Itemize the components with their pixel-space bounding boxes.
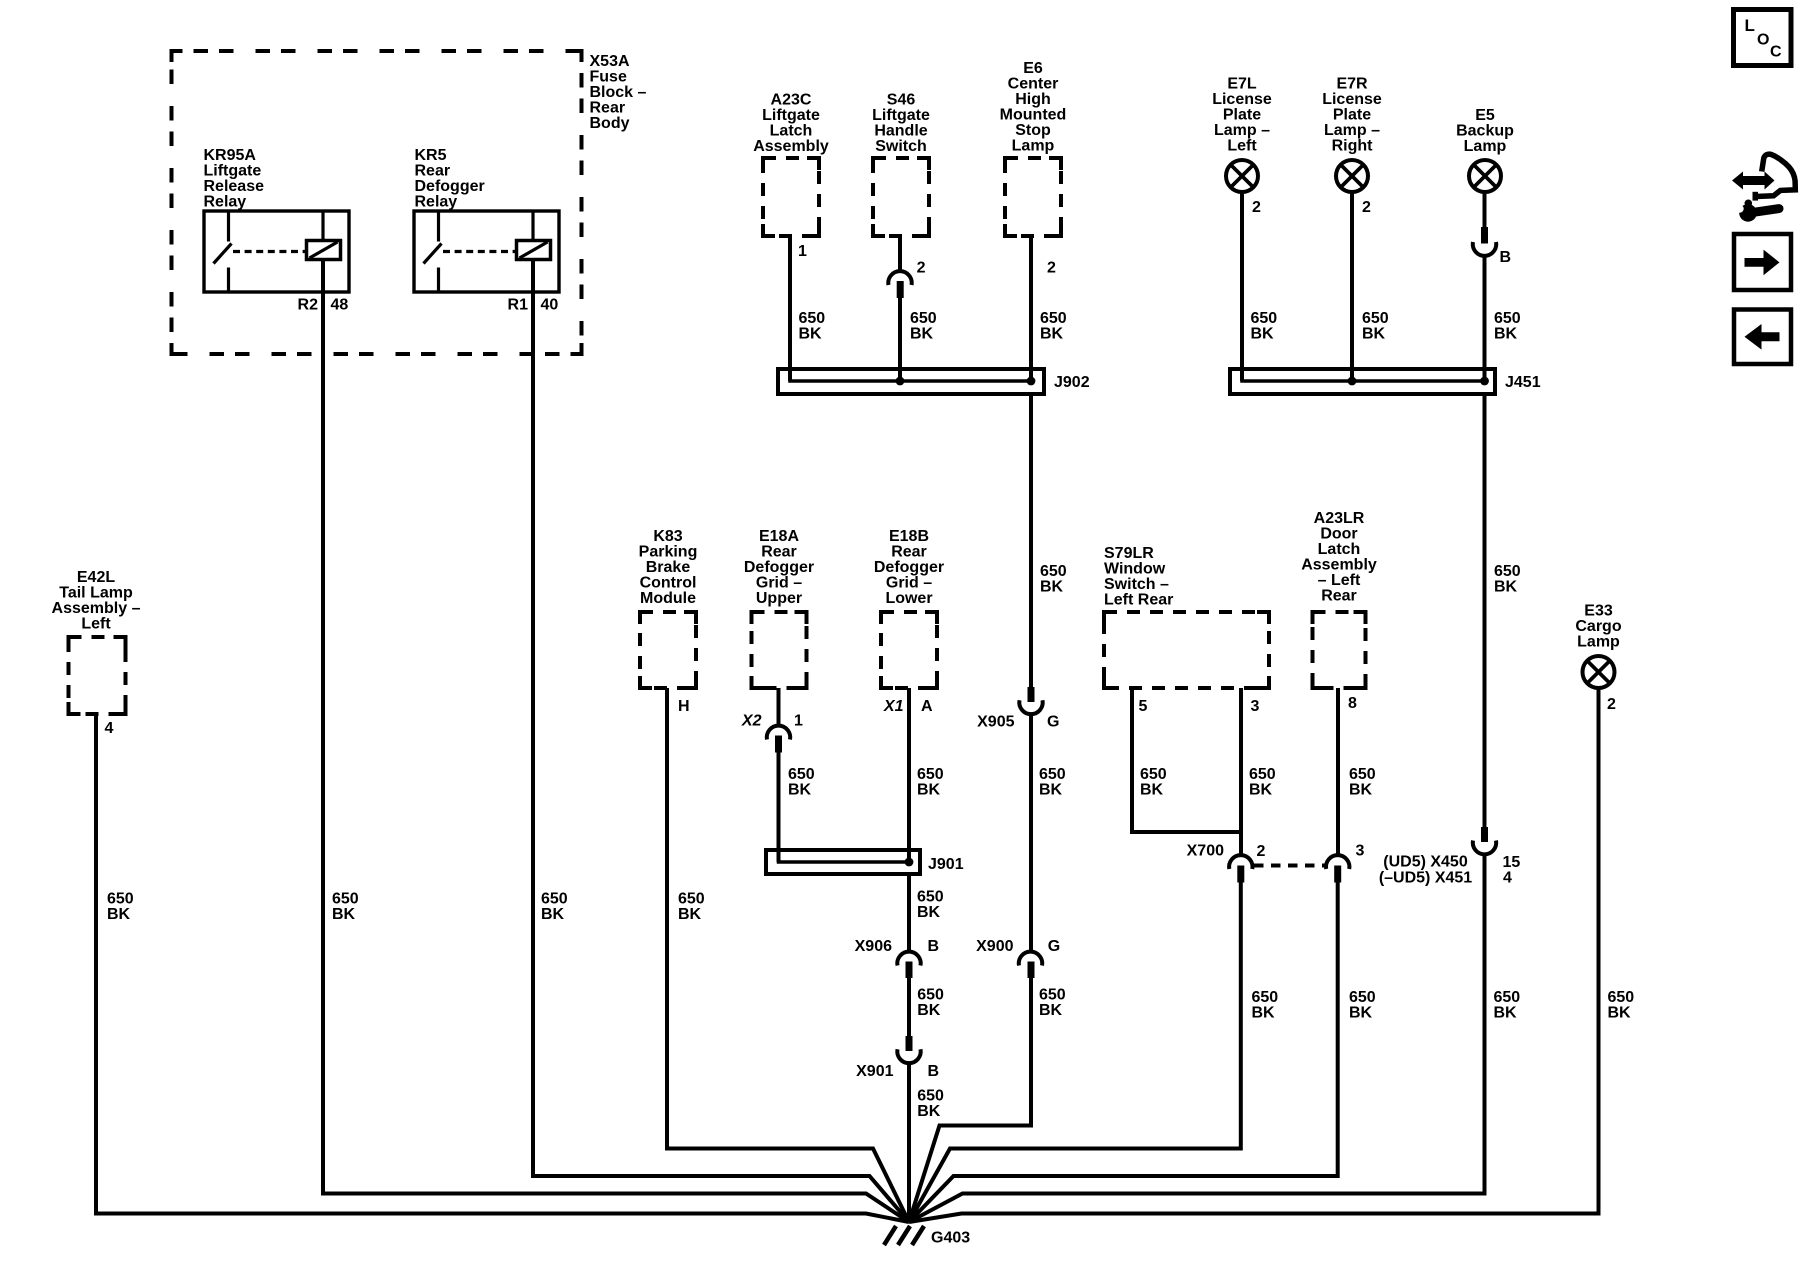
svg-text:3: 3 — [1356, 843, 1365, 860]
svg-text:650BK: 650BK — [1608, 989, 1635, 1022]
wire E5 upper segment — [1483, 192, 1487, 228]
svg-text:650BK: 650BK — [1249, 766, 1276, 799]
relay KR95A switch arm — [214, 244, 232, 264]
svg-text:40: 40 — [541, 297, 559, 314]
wire E5 to ground run — [909, 855, 1485, 1222]
relay KR5 actuation dashed link — [443, 250, 516, 253]
label E5 Backup Lamp — [1456, 107, 1514, 155]
svg-text:R1: R1 — [508, 297, 529, 314]
svg-text:650BK: 650BK — [1039, 766, 1066, 799]
wire K83 down — [665, 688, 669, 1151]
legend LOC box — [1734, 10, 1792, 66]
fuse block X53A dashed enclosure — [172, 51, 582, 354]
svg-text:X700: X700 — [1187, 843, 1224, 860]
junction dot E6/J902 — [1027, 377, 1036, 386]
svg-text:H: H — [678, 698, 690, 715]
wire E18A to J901 — [777, 752, 781, 863]
svg-text:650BK: 650BK — [910, 310, 937, 343]
wire E7L to J451 — [1240, 192, 1244, 381]
inline connector X900 — [1019, 952, 1042, 978]
inline connector at S46 pin 2 — [888, 271, 911, 298]
wire E18B to J901 — [907, 688, 911, 862]
relay KR95A coil top lead — [321, 213, 324, 241]
svg-text:J902: J902 — [1054, 374, 1090, 391]
splice J451 internal bus — [1242, 372, 1485, 381]
wire A23LR to ground run — [909, 881, 1338, 1222]
splice J902 internal bus — [790, 372, 1031, 381]
svg-text:1: 1 — [794, 713, 803, 730]
lamp E7R symbol — [1336, 160, 1368, 192]
label K83 Parking Brake Control Module — [639, 528, 698, 607]
svg-text:650BK: 650BK — [917, 766, 944, 799]
svg-text:J901: J901 — [928, 856, 964, 873]
module K83 dashed box — [640, 612, 696, 688]
wire KR95A bottom run to ground — [323, 1194, 909, 1223]
svg-text:650BK: 650BK — [541, 891, 568, 924]
svg-text:2: 2 — [1047, 260, 1056, 277]
svg-text:X901: X901 — [856, 1063, 893, 1080]
svg-text:650BK: 650BK — [917, 1088, 944, 1121]
wire E42L down — [94, 714, 98, 1216]
icon related-information (double arrow, outline arrow, wrench) — [1732, 154, 1795, 222]
svg-text:650BK: 650BK — [917, 889, 944, 922]
switch S79LR dashed box — [1104, 612, 1269, 688]
svg-text:1: 1 — [798, 243, 807, 260]
svg-text:650BK: 650BK — [1494, 989, 1521, 1022]
label S46 Liftgate Handle Switch — [872, 92, 930, 156]
icon double-headed arrow — [1732, 172, 1775, 190]
svg-text:C: C — [1770, 43, 1782, 60]
switch S46 dashed box — [873, 158, 929, 236]
svg-text:4: 4 — [1503, 870, 1512, 887]
connector A23C dashed box — [763, 158, 819, 236]
label A23C Liftgate Latch Assembly — [753, 92, 829, 156]
wire E5 to J451 — [1483, 256, 1487, 382]
wire E6 J902 to X905 — [1029, 394, 1033, 688]
splice pack J901 — [766, 850, 920, 874]
splice J901 internal bus — [779, 853, 910, 862]
svg-text:650BK: 650BK — [1349, 766, 1376, 799]
svg-text:R2: R2 — [298, 297, 319, 314]
relay KR5 switch top contact — [437, 213, 440, 242]
svg-text:650BK: 650BK — [1349, 989, 1376, 1022]
svg-text:X1: X1 — [883, 698, 904, 715]
relay KR95A coil — [307, 241, 341, 260]
inline connector X906 — [897, 952, 920, 978]
svg-text:(UD5) X450(–UD5) X451: (UD5) X450(–UD5) X451 — [1379, 854, 1472, 887]
wire KR5 down — [531, 292, 535, 1178]
wire S46 to J902 — [898, 297, 902, 381]
lamp E5 symbol — [1469, 160, 1501, 192]
relay KR5 — [414, 211, 559, 314]
wire A23LR down — [1336, 688, 1340, 854]
label E6 Center High Mounted Stop Lamp — [1000, 60, 1067, 155]
wire E42L bottom run to ground — [96, 1214, 909, 1223]
relay KR5 coil top lead — [531, 213, 534, 241]
svg-text:G: G — [1048, 938, 1060, 955]
lamp E33 symbol — [1583, 656, 1615, 688]
svg-text:5: 5 — [1139, 698, 1148, 715]
splice pack J902 — [778, 369, 1044, 394]
lamp E7L symbol — [1226, 160, 1258, 192]
wire KR5 bottom run to ground — [533, 1176, 909, 1222]
svg-text:650BK: 650BK — [1140, 766, 1167, 799]
label relay KR95A Liftgate Release Relay — [204, 147, 265, 211]
svg-text:650BK: 650BK — [107, 891, 134, 924]
wire X900 to ground — [909, 978, 1031, 1223]
svg-text:650BK: 650BK — [1039, 987, 1066, 1020]
svg-text:X905: X905 — [977, 714, 1014, 731]
label A23LR Door Latch Assembly - Left Rear — [1301, 510, 1377, 605]
wire X901 to ground — [907, 1064, 911, 1222]
svg-text:2: 2 — [1257, 843, 1266, 860]
svg-text:L: L — [1745, 16, 1755, 35]
svg-text:O: O — [1757, 31, 1769, 48]
svg-text:B: B — [1500, 249, 1512, 266]
label relay KR5 Rear Defogger Relay — [415, 147, 485, 211]
svg-text:3: 3 — [1251, 698, 1260, 715]
svg-text:2: 2 — [1252, 199, 1261, 216]
grid E18A dashed box — [752, 612, 807, 688]
relay KR5 coil — [517, 241, 551, 260]
svg-text:650BK: 650BK — [1252, 989, 1279, 1022]
wire E6 to J902 — [1029, 236, 1033, 381]
relay KR5 coil bottom lead — [531, 260, 535, 293]
latch A23LR dashed box — [1313, 612, 1366, 688]
svg-text:650BK: 650BK — [1251, 310, 1278, 343]
icon outline arrow shape — [1753, 154, 1796, 197]
svg-text:650BK: 650BK — [1040, 563, 1067, 596]
label E42L Tail Lamp Assembly - Left — [52, 569, 141, 633]
wire K83 bottom run to ground — [667, 1149, 909, 1223]
label E18B Rear Defogger Grid - Lower — [874, 528, 944, 607]
wire S46 upper segment — [898, 236, 902, 270]
lamp E42L dashed box — [69, 637, 126, 714]
inline connector at E5 pin B — [1473, 227, 1496, 256]
svg-text:J451: J451 — [1505, 374, 1541, 391]
wire E18B J901 to X906 — [907, 874, 911, 951]
junction dot E18B/J901 — [905, 858, 914, 867]
label E7R License Plate Lamp - Right — [1322, 76, 1382, 155]
junction dot E7R/J451 — [1348, 377, 1357, 386]
svg-text:2: 2 — [1362, 199, 1371, 216]
relay KR5 switch bottom contact — [437, 268, 440, 291]
label S79LR Window Switch - Left Rear — [1104, 545, 1173, 609]
svg-text:X2: X2 — [741, 713, 762, 730]
label X53A Fuse Block - Rear Body — [590, 53, 647, 132]
svg-text:X906: X906 — [855, 938, 892, 955]
svg-text:15: 15 — [1503, 854, 1521, 871]
relay KR5 switch arm — [424, 244, 442, 264]
svg-text:650BK: 650BK — [1494, 563, 1521, 596]
svg-text:X900: X900 — [976, 938, 1013, 955]
svg-text:B: B — [928, 938, 940, 955]
svg-text:650BK: 650BK — [1494, 310, 1521, 343]
svg-text:650BK: 650BK — [1362, 310, 1389, 343]
dashed link X700 connector pair — [1254, 864, 1325, 868]
relay KR95A switch bottom contact — [227, 268, 230, 291]
relay KR95A actuation dashed link — [233, 250, 306, 253]
inline connector X905 on E6 wire — [1019, 687, 1042, 714]
svg-text:4: 4 — [105, 720, 114, 737]
inline connector X700 pin 3 — [1326, 855, 1349, 882]
relay KR95A coil bottom lead — [321, 260, 325, 293]
svg-text:650BK: 650BK — [332, 891, 359, 924]
label E18A Rear Defogger Grid - Upper — [744, 528, 814, 607]
svg-text:2: 2 — [1607, 696, 1616, 713]
svg-text:650BK: 650BK — [788, 766, 815, 799]
grid E18B dashed box — [881, 612, 937, 688]
wire KR95A down — [321, 292, 325, 1196]
wire X906 to X901 — [907, 978, 911, 1038]
splice pack J451 — [1230, 369, 1495, 394]
wire E18A upper segment — [777, 688, 781, 725]
wire S79LR pin3 down — [1239, 688, 1243, 854]
inline connector X901 — [897, 1036, 920, 1063]
legend forward arrow box — [1734, 234, 1791, 290]
svg-text:B: B — [928, 1063, 940, 1080]
svg-text:650BK: 650BK — [1040, 310, 1067, 343]
wire A23C to J902 — [788, 236, 792, 381]
svg-text:2: 2 — [917, 260, 926, 277]
relay KR95A switch top contact — [227, 213, 230, 242]
junction dot S46/J902 — [896, 377, 905, 386]
svg-text:650BK: 650BK — [799, 310, 826, 343]
inline connector at E18A pin 1 — [767, 726, 790, 753]
svg-text:48: 48 — [331, 297, 349, 314]
wire E7R to J451 — [1350, 192, 1354, 381]
relay KR95A — [204, 211, 349, 314]
svg-text:G: G — [1047, 714, 1059, 731]
wire X905 to X900 — [1029, 715, 1033, 951]
label (UD5) X450 / (-UD5) X451 — [1379, 854, 1472, 887]
wire X700 to ground run — [909, 881, 1241, 1222]
inline connector X450/X451 on E5 wire — [1473, 827, 1496, 854]
label E33 Cargo Lamp — [1575, 603, 1621, 651]
legend backward arrow box — [1734, 310, 1791, 365]
svg-text:A: A — [921, 698, 933, 715]
wire S79LR pin5 down and over — [1132, 688, 1241, 832]
svg-text:650BK: 650BK — [678, 891, 705, 924]
wire E33 to ground run — [909, 688, 1599, 1222]
inline connector X700 pin 2 — [1229, 855, 1252, 882]
ground G403 symbol — [884, 1226, 924, 1245]
wire E5 J451 to X450 — [1483, 394, 1487, 828]
svg-text:8: 8 — [1348, 695, 1357, 712]
svg-text:G403: G403 — [931, 1230, 970, 1247]
icon wrench — [1739, 204, 1757, 222]
label E7L License Plate Lamp - Left — [1212, 76, 1272, 155]
junction dot E5/J451 — [1480, 377, 1489, 386]
lamp E6 dashed box — [1005, 158, 1061, 236]
svg-text:650BK: 650BK — [917, 987, 944, 1020]
